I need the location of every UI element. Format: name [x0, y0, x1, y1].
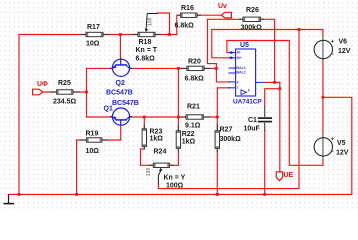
svg-text:100: 100	[146, 168, 152, 177]
svg-text:4: 4	[237, 80, 239, 84]
svg-text:IN+: IN+	[237, 56, 242, 60]
svg-text:BC547B: BC547B	[106, 90, 133, 97]
svg-text:R19: R19	[86, 131, 99, 138]
svg-text:10Ω: 10Ω	[86, 40, 100, 47]
svg-text:12V: 12V	[338, 48, 351, 55]
svg-text:R27: R27	[220, 127, 233, 134]
svg-text:R22: R22	[182, 131, 195, 138]
svg-text:12V: 12V	[336, 149, 349, 156]
svg-text:Kn = T: Kn = T	[136, 47, 158, 54]
svg-text:234.5Ω: 234.5Ω	[53, 98, 77, 105]
svg-text:100Ω: 100Ω	[166, 183, 184, 190]
svg-text:10uF: 10uF	[244, 126, 261, 133]
svg-text:U5: U5	[240, 42, 249, 49]
svg-text:Q2: Q2	[116, 80, 125, 87]
svg-text:R25: R25	[58, 80, 71, 87]
svg-text:1kΩ: 1kΩ	[150, 136, 164, 143]
svg-text:7: 7	[237, 86, 239, 90]
svg-text:C1: C1	[248, 117, 257, 124]
svg-text:300kΩ: 300kΩ	[241, 24, 263, 31]
svg-text:R24: R24	[154, 149, 167, 156]
svg-text:10Ω: 10Ω	[86, 148, 100, 155]
svg-text:UE: UE	[284, 172, 294, 179]
svg-text:BC547B: BC547B	[112, 100, 139, 107]
svg-text:6.8kΩ: 6.8kΩ	[136, 55, 156, 62]
svg-text:R18: R18	[139, 39, 152, 46]
svg-text:6: 6	[248, 89, 250, 93]
svg-text:300kΩ: 300kΩ	[220, 136, 242, 143]
svg-text:V5: V5	[337, 140, 346, 147]
svg-text:9.1Ω: 9.1Ω	[185, 122, 201, 129]
svg-text:IN-: IN-	[237, 51, 241, 55]
svg-text:BAL2: BAL2	[236, 70, 245, 74]
svg-text:R16: R16	[181, 5, 194, 12]
svg-text:R23: R23	[150, 128, 163, 135]
svg-text:UΦ: UΦ	[37, 81, 48, 88]
svg-text:UA741CP: UA741CP	[233, 99, 262, 106]
svg-text:R21: R21	[187, 104, 200, 111]
svg-text:R17: R17	[87, 24, 100, 31]
svg-text:6.8kΩ: 6.8kΩ	[175, 23, 195, 30]
svg-text:V6: V6	[339, 39, 348, 46]
svg-text:Uv: Uv	[218, 3, 227, 10]
svg-text:6.8kΩ: 6.8kΩ	[185, 75, 205, 82]
svg-text:1kΩ: 1kΩ	[182, 138, 196, 145]
svg-text:R20: R20	[188, 58, 201, 65]
svg-text:100: 100	[147, 17, 153, 26]
svg-text:Kn = Y: Kn = Y	[164, 175, 186, 182]
svg-text:R26: R26	[246, 7, 259, 14]
